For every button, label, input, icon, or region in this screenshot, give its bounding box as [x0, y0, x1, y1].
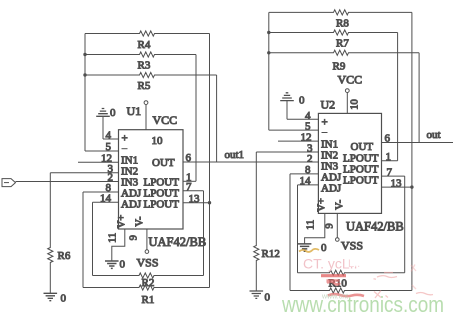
U1 pin 4 (+) — [103, 130, 128, 145]
svg-text:out: out — [427, 129, 441, 141]
svg-text:+: + — [122, 133, 128, 145]
svg-text:9: 9 — [325, 223, 336, 228]
U2 pin 1 (LPOUT) — [343, 151, 398, 165]
svg-text:ADJ: ADJ — [321, 183, 342, 195]
ground 0 at U1 pin 11 — [105, 259, 126, 271]
svg-text:L..: L.. — [348, 258, 360, 270]
op-amp filter U2 body — [318, 113, 381, 213]
U2 pin 9 (V-) — [325, 199, 346, 241]
ground 0 at U2 pin 11 — [298, 242, 327, 254]
svg-text:R4: R4 — [138, 39, 151, 51]
svg-text:R1: R1 — [142, 294, 155, 306]
svg-text:R9: R9 — [333, 61, 346, 73]
wire R8 to U2 pin 13 / outer loop right rail — [411, 12, 413, 290]
svg-text:R2: R2 — [142, 277, 155, 289]
svg-text:10: 10 — [152, 135, 164, 147]
svg-text:0: 0 — [299, 95, 305, 107]
wire R4 to U1 pin 13 / R1 loop right rail — [209, 34, 211, 288]
U1 pin 8 (ADJ) — [83, 182, 142, 199]
wire R3 to U1 pin 1 rail — [195, 55, 197, 182]
junction R7/summing rail — [267, 31, 270, 34]
svg-text:UAF42/BB: UAF42/BB — [346, 220, 404, 234]
wire R9 to out rail — [418, 53, 420, 143]
wire R5 to out1 rail — [216, 75, 218, 162]
U1 pin 7 (LPOUT) — [144, 181, 204, 200]
svg-text:VSS: VSS — [137, 256, 159, 270]
svg-text:14: 14 — [300, 175, 312, 187]
svg-text:13: 13 — [189, 193, 201, 205]
U2 pin 14 (ADJ) — [298, 175, 342, 194]
U2 pin 8 (ADJ) — [290, 164, 342, 183]
U1 pin 9 (V-) — [129, 216, 149, 253]
junction R3/summing rail — [83, 53, 86, 56]
resistor R7 — [269, 30, 398, 50]
resistor R6 — [48, 173, 71, 293]
svg-text:R3: R3 — [138, 60, 151, 72]
resistor R11 (U2 outer loop) — [290, 174, 412, 293]
U2 pin 10 (VCC) — [345, 89, 360, 114]
ground 0 below R6 — [44, 293, 67, 305]
U1 pin 14 (ADJ) — [93, 193, 142, 211]
U1 pin 3 (IN2) — [50, 163, 138, 178]
U1 pin 5 (-) — [85, 141, 128, 153]
watermark yellow scribble — [299, 249, 319, 252]
svg-text:5: 5 — [106, 141, 112, 153]
svg-text:R6: R6 — [58, 250, 71, 262]
ground 0 below R12 — [250, 291, 271, 304]
svg-text:11: 11 — [108, 233, 119, 243]
svg-text:1: 1 — [386, 151, 392, 163]
U1 pin 12 (IN1) — [78, 153, 138, 167]
ground 0 at U2 pin 4 — [280, 93, 305, 120]
junction R5/summing rail — [83, 73, 86, 76]
op-amp filter U1 body — [119, 130, 184, 229]
svg-text:0: 0 — [321, 242, 327, 254]
resistor R5 — [85, 72, 217, 92]
svg-text:www.cntronics.com: www.cntronics.com — [281, 292, 444, 317]
svg-text:7: 7 — [186, 181, 192, 193]
svg-text:10: 10 — [350, 99, 361, 110]
U2 pin 6 (OUT) — [351, 133, 391, 154]
svg-text:0: 0 — [120, 259, 126, 271]
svg-text:13: 13 — [391, 177, 403, 189]
svg-text:4: 4 — [106, 130, 112, 142]
resistor R9 — [269, 50, 419, 72]
resistor R8 — [269, 10, 412, 30]
wire net out — [382, 142, 454, 144]
svg-text:U2: U2 — [321, 98, 336, 112]
resistor R3 — [85, 52, 196, 72]
watermark red scratches right — [374, 265, 434, 299]
junction R9/summing rail — [267, 51, 270, 54]
svg-text:V+: V+ — [117, 215, 128, 229]
U2 pin 11 (V+) to ground — [305, 198, 328, 244]
svg-text:0: 0 — [265, 292, 271, 304]
svg-text:OUT: OUT — [152, 157, 175, 169]
U1 pin 2 (IN3) — [108, 172, 139, 189]
U2 pin 13 (LPOUT) — [343, 175, 414, 190]
svg-text:R12: R12 — [262, 248, 280, 260]
svg-text:9: 9 — [129, 235, 140, 240]
U1 pin 13 (LPOUT) — [144, 193, 212, 211]
svg-text:2: 2 — [307, 153, 313, 165]
svg-text:LPOUT: LPOUT — [144, 199, 180, 211]
U2 pin 2 (IN3) — [307, 153, 339, 173]
watermark red bar over R10 — [321, 274, 346, 277]
U2 pin 3 (IN2) — [256, 142, 338, 161]
wire R7 to U2 pin 1 rail — [397, 33, 399, 161]
svg-text:V-: V- — [334, 199, 345, 210]
svg-text:U1: U1 — [127, 104, 142, 118]
svg-text:V+: V+ — [316, 198, 327, 212]
wire input to U1 pin 2 (IN3) — [16, 181, 119, 183]
svg-text:R8: R8 — [336, 18, 349, 30]
svg-text:R7: R7 — [336, 38, 349, 50]
svg-text:14: 14 — [100, 193, 112, 205]
U2 pin 7 (LPOUT) — [343, 164, 405, 179]
svg-text:+: + — [322, 117, 328, 129]
svg-text:5: 5 — [305, 120, 311, 132]
wire U1 summing-node left rail — [84, 34, 86, 152]
resistor R2 (U1 inner loop) — [93, 191, 204, 289]
U1 pin 6 (OUT) — [152, 152, 192, 169]
resistor R4 — [85, 31, 210, 51]
resistor R12 — [254, 152, 280, 291]
input port IN — [2, 179, 16, 187]
U2 pin 5 (-) — [269, 120, 328, 132]
svg-text:VCC: VCC — [153, 113, 178, 127]
svg-text:0: 0 — [110, 107, 116, 119]
U2 pin 4 (+) — [287, 110, 328, 129]
svg-text:VSS: VSS — [341, 239, 363, 253]
svg-text:LPOUT: LPOUT — [343, 175, 379, 187]
U1 pin 11 (V+) to ground — [108, 215, 128, 261]
svg-text:UAF42/BB: UAF42/BB — [149, 235, 207, 249]
svg-text:11: 11 — [306, 220, 317, 230]
U2 pin 12 (IN1) — [278, 132, 338, 151]
svg-text:0: 0 — [61, 293, 67, 305]
svg-text:out1: out1 — [225, 149, 245, 161]
resistor R1 (U1 outer loop) — [83, 192, 210, 306]
resistor R10 (U2 inner loop) — [298, 176, 405, 289]
U1 pin 1 (LPOUT) — [144, 172, 197, 189]
svg-text:VCC: VCC — [338, 73, 363, 87]
svg-text:ADJ: ADJ — [121, 199, 142, 211]
wire U2 summing-node left rail — [268, 12, 270, 130]
wire net out1 (U1 OUT to U2 IN3) — [183, 161, 318, 163]
U1 pin 10 (VCC) — [144, 101, 163, 147]
watermark red scribble over R10 label — [327, 281, 341, 285]
svg-text:OUT: OUT — [351, 141, 374, 153]
svg-text:R5: R5 — [138, 80, 151, 92]
watermark red scribble below R11 — [328, 294, 364, 296]
svg-text:V-: V- — [135, 216, 146, 227]
ground 0 at U1 pin 4 — [96, 107, 116, 139]
